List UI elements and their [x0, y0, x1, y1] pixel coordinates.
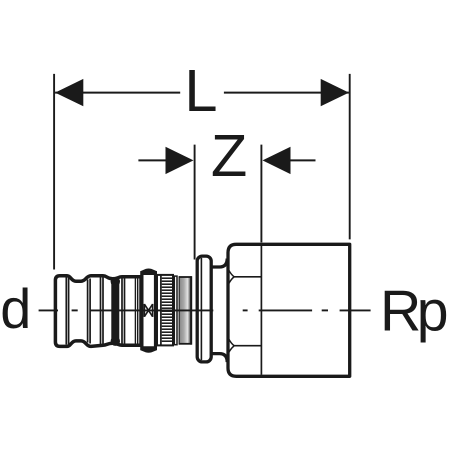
indicator collar top cap [140, 269, 157, 276]
press rib line pair 4 [121, 279, 123, 344]
dimension L line right segment [224, 92, 349, 94]
hex socket body with neck [228, 244, 350, 376]
svg-text:L: L [184, 57, 217, 124]
dimension Z extension line left [194, 145, 196, 260]
knurl rungs [162, 278, 173, 341]
dimension Z arrow left [166, 147, 194, 174]
neck top line [211, 259, 227, 268]
hex boundary line [260, 246, 262, 375]
dimension Z line left segment [138, 159, 166, 161]
hex flat line bottom [233, 345, 261, 347]
dimension L arrow right [321, 79, 349, 106]
press rib line pair 5 [134, 279, 136, 344]
flange inner line [200, 258, 202, 360]
svg-text:Z: Z [211, 122, 247, 189]
press end outer body [55, 276, 141, 347]
press rib line pair 2 [87, 280, 89, 343]
hex chamfer top [229, 270, 234, 283]
indicator collar bar A [141, 271, 144, 350]
centerline [39, 309, 371, 311]
press rib line pair 3 [100, 278, 102, 345]
neck bottom line [211, 354, 227, 363]
knurl section frame [157, 275, 173, 346]
svg-text:Rp: Rp [380, 280, 447, 344]
dimension Z extension line right [260, 145, 262, 243]
indicator cross [144, 304, 152, 317]
dimension Z arrow right [263, 147, 291, 174]
dimension L extension line right [349, 74, 351, 240]
o-ring black band [111, 279, 119, 344]
indicator collar bar B [154, 271, 157, 350]
dimension L line left segment [55, 92, 180, 94]
press rib line pair 1 [65, 278, 67, 345]
spacer band [174, 276, 177, 345]
flange disc [197, 256, 211, 362]
indicator collar bottom cap [140, 346, 157, 353]
svg-text:d: d [0, 277, 31, 340]
hex flat line top [233, 276, 261, 278]
dimension L extension line left [53, 74, 55, 270]
dimension L arrow left [55, 79, 83, 106]
knurl left rail [160, 275, 162, 346]
hex chamfer bottom [229, 339, 234, 352]
dimension Z line right segment [290, 159, 316, 161]
